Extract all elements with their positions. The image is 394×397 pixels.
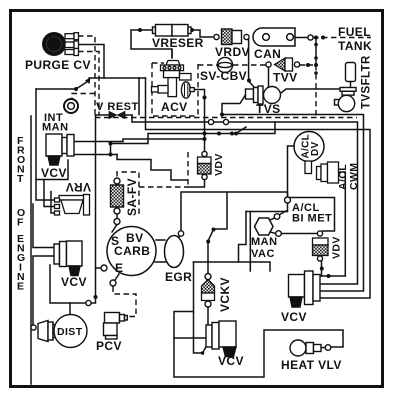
svg-text:BI MET: BI MET [292,213,332,225]
svg-text:PCV: PCV [96,339,122,353]
svg-text:TVSFLTR: TVSFLTR [361,55,373,109]
svg-text:DIST: DIST [57,326,83,338]
svg-text:TVS: TVS [256,102,281,116]
svg-text:VCV: VCV [218,354,244,368]
svg-text:VCV: VCV [41,166,67,180]
svg-text:TVV: TVV [273,71,298,85]
svg-text:EGR: EGR [165,270,192,284]
svg-text:VDV: VDV [331,236,343,259]
svg-text:TANK: TANK [338,39,372,53]
svg-text:SA-FV: SA-FV [125,178,139,216]
svg-text:V REST: V REST [96,101,139,113]
svg-text:DV: DV [310,141,321,156]
svg-text:ACV: ACV [161,100,188,114]
svg-text:MAN: MAN [251,236,278,248]
svg-text:E: E [17,281,24,293]
svg-text:HEAT VLV: HEAT VLV [281,358,342,372]
svg-text:CAN: CAN [254,47,281,61]
svg-text:VRV: VRV [65,180,91,194]
svg-text:VCV: VCV [281,310,307,324]
svg-text:VRDV: VRDV [215,45,250,59]
svg-text:F: F [17,217,24,229]
svg-text:CWM: CWM [348,163,360,190]
svg-text:T: T [17,173,24,185]
svg-text:CARB: CARB [114,244,150,258]
svg-text:VCKV: VCKV [218,277,232,312]
svg-text:SV-CBV: SV-CBV [200,69,247,83]
svg-text:BV: BV [126,231,143,245]
svg-text:E: E [115,261,123,275]
svg-text:VRESER: VRESER [152,36,204,50]
svg-text:VCV: VCV [61,275,87,289]
svg-text:VAC: VAC [251,248,275,260]
svg-text:VDV: VDV [213,153,225,176]
svg-text:MAN: MAN [42,122,69,134]
svg-text:FUEL: FUEL [338,25,371,39]
svg-text:PURGE CV: PURGE CV [25,58,91,72]
